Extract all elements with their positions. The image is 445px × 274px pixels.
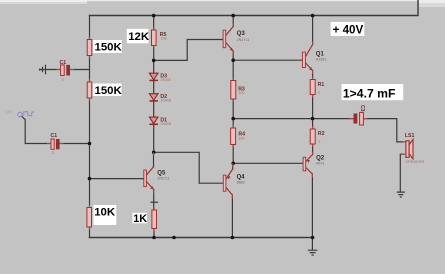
svg-text:B662: B662: [237, 181, 245, 185]
svg-text:12K: 12K: [128, 31, 150, 43]
svg-text:C1: C1: [60, 60, 67, 66]
svg-text:10k: 10k: [161, 37, 167, 41]
svg-text:R2: R2: [318, 131, 325, 137]
svg-text:2N1711: 2N1711: [237, 38, 249, 42]
svg-text:150K: 150K: [95, 85, 123, 97]
svg-text:1N408: 1N408: [160, 78, 171, 82]
svg-text:H1581: H1581: [316, 58, 327, 62]
svg-text:100: 100: [239, 91, 245, 95]
svg-text:C3: C3: [359, 105, 365, 112]
svg-text:SPEAKER: SPEAKER: [405, 160, 424, 164]
svg-text:C: C: [62, 77, 65, 81]
svg-text:C: C: [52, 151, 55, 155]
svg-text:1K: 1K: [133, 213, 147, 225]
svg-text:Q3: Q3: [237, 31, 246, 37]
svg-text:A671: A671: [316, 162, 324, 166]
svg-text:Q1: Q1: [316, 51, 325, 57]
svg-text:1: 1: [318, 90, 320, 94]
svg-text:1N408: 1N408: [160, 99, 171, 103]
svg-text:1: 1: [318, 139, 320, 143]
svg-text:LS1: LS1: [405, 133, 415, 139]
svg-text:2N1711: 2N1711: [157, 176, 169, 180]
svg-text:1>4.7 mF: 1>4.7 mF: [343, 87, 396, 101]
svg-text:SIN: SIN: [5, 110, 13, 115]
svg-text:10K: 10K: [94, 207, 116, 219]
svg-text:100: 100: [239, 136, 245, 140]
svg-text:R1: R1: [318, 82, 325, 88]
svg-text:C1: C1: [51, 133, 58, 139]
svg-text:+ 40V: + 40V: [333, 23, 364, 36]
svg-text:150K: 150K: [95, 42, 123, 54]
svg-text:1N408: 1N408: [160, 122, 171, 126]
